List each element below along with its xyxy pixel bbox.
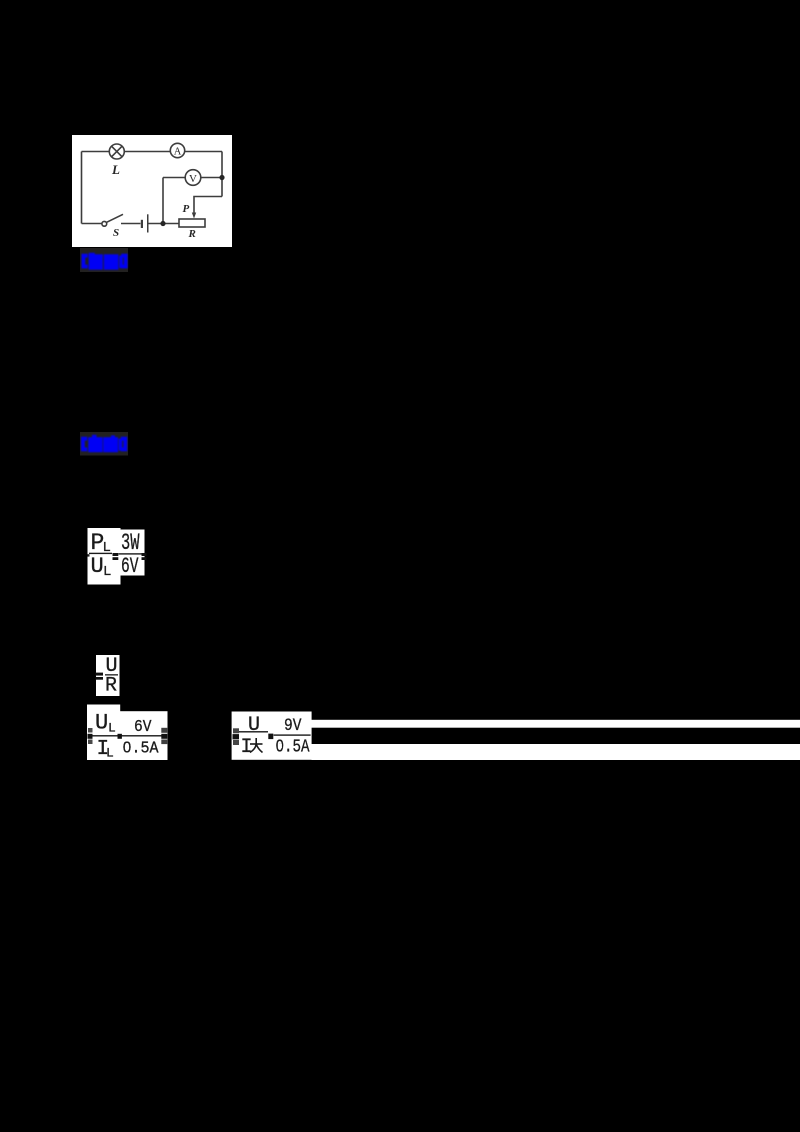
switch S — [102, 214, 123, 226]
equals marks left edge — [233, 728, 239, 733]
formula 4 image U/I大 = 9V/0.5A — [232, 712, 312, 760]
fraction bar U/R — [105, 674, 118, 675]
analysis label blue text — [81, 435, 127, 452]
hanzi da subscript — [250, 738, 263, 753]
svg-text:S: S — [113, 227, 119, 239]
battery long plate — [147, 214, 149, 232]
analysis label box — [80, 432, 128, 456]
voltmeter V — [185, 170, 201, 186]
formula 3 white background left — [87, 705, 120, 761]
formula 1 white background left — [88, 528, 121, 585]
zero dot cover — [125, 745, 129, 749]
equals at right edge — [142, 553, 147, 556]
svg-text:L: L — [111, 162, 120, 177]
wire bottom — [82, 223, 102, 225]
fraction bar 3W/6V — [119, 553, 145, 554]
wire voltmeter branch horizontal left — [163, 177, 185, 179]
fraction bar U_L/I_L — [91, 735, 118, 736]
equals at left edge — [96, 673, 104, 676]
zero dot cover — [278, 744, 282, 748]
formula 3 white background right — [120, 711, 168, 760]
fraction bar P_L/U_L — [89, 553, 112, 554]
svg-text:R: R — [188, 228, 196, 240]
wire voltmeter branch vertical — [162, 178, 164, 224]
wire switch to battery — [121, 223, 141, 225]
wire voltmeter to right node — [201, 177, 222, 179]
slider arrow P head — [192, 213, 196, 219]
circuit image white background — [72, 135, 232, 247]
svg-text:U: U — [248, 714, 260, 737]
wire battery to node — [149, 223, 180, 225]
wire right to slider horizontal — [194, 197, 222, 214]
svg-text:9V: 9V — [284, 716, 302, 736]
formula 1 image P_L/U_L = 3W/6V — [88, 528, 147, 585]
equals between fractions — [268, 734, 273, 740]
ammeter A — [170, 143, 184, 157]
svg-text:L: L — [103, 564, 111, 580]
wire right vertical — [221, 152, 223, 197]
battery short plate — [141, 220, 143, 228]
answer label box — [80, 248, 128, 272]
formula 4 white background — [232, 712, 312, 760]
equals marks right edge — [161, 728, 167, 733]
svg-text:6V: 6V — [134, 718, 152, 737]
svg-text:L: L — [108, 721, 116, 736]
node dot right — [219, 175, 224, 180]
fraction bar 6V/0.5A — [122, 735, 167, 736]
formula 2 image = U/R — [96, 655, 120, 698]
svg-text:U: U — [91, 554, 104, 579]
svg-text:3W: 3W — [121, 530, 140, 556]
formula 1 white background right — [119, 530, 145, 576]
rheostat R — [179, 219, 205, 227]
svg-text:6V: 6V — [121, 554, 139, 579]
svg-text:I: I — [241, 736, 253, 759]
answer label blue text — [82, 253, 128, 270]
wire top — [82, 151, 223, 153]
svg-text:A: A — [174, 147, 182, 158]
svg-text:R: R — [105, 675, 117, 698]
battery — [141, 214, 149, 232]
fraction bar U/I_da — [238, 731, 269, 732]
svg-text:U: U — [95, 711, 108, 736]
equals between fractions — [113, 553, 119, 556]
equals marks left edge — [88, 728, 93, 733]
white bar bottom right — [312, 744, 800, 760]
node dot bottom — [160, 221, 165, 226]
lamp L circle — [109, 144, 124, 159]
svg-text:P: P — [183, 203, 190, 215]
formula 2 white background — [96, 655, 120, 696]
wire left vertical — [81, 152, 83, 224]
svg-text:L: L — [106, 746, 114, 761]
white bar top right — [312, 720, 800, 728]
equals notch at left edge — [88, 554, 90, 556]
formula 3 image U_L/I_L = 6V/0.5A — [87, 705, 168, 762]
svg-text:V: V — [189, 173, 197, 185]
equals between fractions — [118, 734, 122, 739]
fraction bar 9V/0.5A — [274, 734, 311, 735]
